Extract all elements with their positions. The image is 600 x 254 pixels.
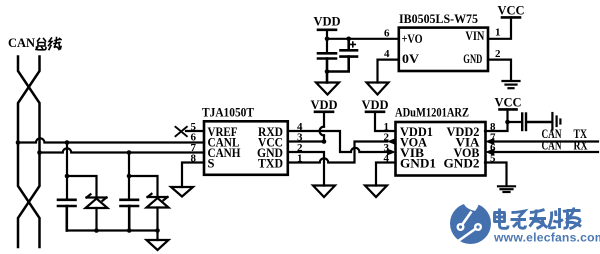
svg-text:IB0505LS-W75: IB0505LS-W75 [399, 11, 478, 26]
wire CAN RX line from VOB [494, 151, 598, 153]
wire VCC decoupling branch [508, 121, 522, 123]
wire ADuM GND1 stub to ground [376, 163, 396, 186]
wire IB0505 0V stub to ground [378, 60, 399, 83]
svg-text:0V: 0V [402, 52, 419, 66]
wire TJA RXD (pin4) to ADuM VIB with jump [288, 131, 387, 152]
svg-text:ADuM1201ARZ: ADuM1201ARZ [395, 105, 469, 120]
svg-text:VIN: VIN [465, 29, 484, 43]
op-amp U2 ADuM1201ARZ box [396, 122, 486, 176]
hanzi zong [36, 39, 46, 50]
label U3 pin numbers [384, 27, 501, 61]
diode D1 (zener) [86, 194, 108, 230]
wire IB0505 VIN to VCC [488, 17, 511, 38]
svg-text:CAN: CAN [542, 138, 562, 153]
svg-text:TXD: TXD [258, 157, 283, 171]
svg-text:1: 1 [495, 27, 501, 39]
svg-text:VCC: VCC [494, 96, 521, 110]
label U1 left pin numbers [191, 121, 197, 165]
wire TJA GND (pin2) stub to ground [288, 152, 324, 186]
svg-text:TJA1050T: TJA1050T [202, 105, 254, 120]
node junction dots [16, 37, 510, 233]
svg-text:8: 8 [191, 153, 197, 165]
capacitor C2 [121, 200, 139, 231]
capacitor C5 (decoupling, sideways) [522, 114, 551, 131]
pin arrow VOA out [387, 138, 396, 145]
ground IB0505 0V [367, 83, 389, 95]
pin arrow VIB in [387, 149, 396, 156]
power VCC top right [497, 4, 524, 18]
label U2 left pin names [400, 125, 436, 171]
wire TJA pin5 stub [186, 130, 204, 132]
power VDD above ADuM VDD1 [361, 98, 395, 131]
ground protection network [147, 231, 169, 251]
wire CANH bus (lower, from right wire) [40, 148, 205, 152]
capacitor C1 [58, 200, 76, 231]
ground earth ADuM GND2 [498, 186, 515, 192]
diode D2 (zener) [147, 194, 169, 231]
op-amp U3 IB0505LS-W75 box [399, 28, 488, 71]
label C4 plus sign [350, 42, 355, 47]
wire TJA VCC (pin3) stub [288, 140, 324, 142]
hanzi xian [49, 38, 62, 50]
wire CANL bus (upper, from left wire with hop over right wire) [18, 138, 204, 142]
wire ADuM GND2 stub to earth [485, 163, 507, 186]
wire branch 1 stub to diode D1 [67, 176, 97, 197]
svg-text:6: 6 [384, 28, 390, 40]
label U1 left pin names [208, 125, 241, 171]
ground TJA pin S [171, 187, 193, 197]
wire TJA pin8 stub to ground [182, 163, 204, 188]
capacitor C4 (polarized) [327, 39, 357, 72]
label U1 right pin numbers [297, 121, 303, 165]
power VCC above ADuM VDD2 [485, 96, 522, 132]
label U3 pin names [402, 32, 423, 66]
wire branch 2 vertical from CANH bus [128, 153, 130, 200]
power VDD top-left cluster [313, 15, 340, 54]
pin arrow VIA in [485, 138, 494, 145]
pin arrow VOB [485, 149, 494, 156]
label U1 right pin names [257, 125, 283, 171]
label U2 right pin numbers [490, 121, 496, 165]
op-amp U1 TJA1050T box [204, 121, 288, 175]
svg-text:RX: RX [574, 138, 588, 153]
power VDD above TJA VCC [310, 98, 337, 142]
wire twisted pair left conductor [18, 57, 40, 248]
wire VDD rail to IB0505 +VO [327, 38, 399, 40]
wire branch 2 stub to diode D2 [129, 176, 158, 196]
svg-text:www.elecfans.com: www.elecfans.com [493, 231, 600, 245]
svg-text:VDD: VDD [361, 98, 388, 112]
watermark logo elecfans [450, 195, 491, 244]
watermark text dianzifashaoyou [494, 208, 582, 229]
svg-text:2: 2 [495, 48, 501, 60]
wire twisted pair right conductor [18, 57, 40, 248]
op X no-connect mark on pin 5 [176, 127, 187, 136]
ground VDD cluster [316, 83, 339, 95]
svg-text:VDD: VDD [313, 15, 340, 29]
ground ADuM GND1 [365, 186, 387, 198]
label U2 left pin numbers [384, 121, 390, 165]
wire branch 1 vertical from CANL bus [66, 143, 68, 200]
svg-text:4: 4 [384, 48, 390, 60]
wire IB0505 GND stub to earth [488, 60, 511, 81]
ground sideways earth at C5 [552, 113, 560, 130]
ground earth IB0505 GND [503, 81, 520, 88]
svg-text:S: S [208, 157, 215, 171]
svg-text:GND1: GND1 [400, 157, 436, 171]
svg-text:VDD: VDD [310, 98, 337, 112]
svg-text:GND: GND [463, 52, 482, 66]
svg-text:VCC: VCC [497, 4, 524, 18]
capacitor C3 [318, 53, 336, 82]
wire CAN TX line from VIA [494, 140, 598, 142]
wire TJA TXD (pin1) to ADuM VOA with jump over ground wire [288, 142, 387, 163]
svg-text:+VO: +VO [402, 32, 423, 46]
ground TJA GND [313, 186, 335, 198]
label U2 right pin names [444, 125, 480, 171]
wire bottom rail of protection network [67, 229, 158, 231]
svg-text:CAN: CAN [8, 35, 36, 50]
svg-text:GND2: GND2 [444, 157, 480, 171]
